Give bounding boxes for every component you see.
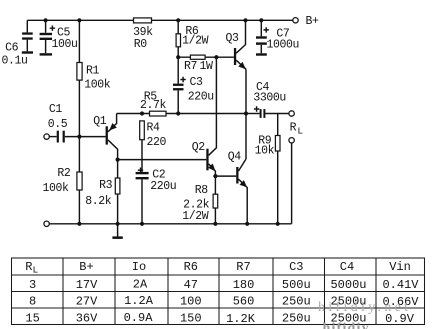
terminal RL bottom bbox=[289, 138, 294, 143]
node output junction bbox=[244, 111, 248, 115]
svg-text:Q1: Q1 bbox=[93, 115, 107, 128]
capacitor C1 bbox=[48, 103, 106, 142]
svg-text:500u: 500u bbox=[282, 278, 311, 292]
node Q4 emitter ground junction bbox=[245, 222, 249, 226]
svg-text:10k: 10k bbox=[255, 145, 275, 158]
svg-text:3: 3 bbox=[29, 278, 36, 292]
table row 3 bbox=[25, 311, 414, 326]
transistor Q2 bbox=[192, 57, 217, 176]
svg-text:hifidiy: hifidiy bbox=[323, 321, 370, 329]
svg-text:R1: R1 bbox=[86, 64, 100, 77]
svg-text:0.9A: 0.9A bbox=[124, 311, 154, 325]
svg-text:C6: C6 bbox=[5, 42, 19, 55]
svg-text:R0: R0 bbox=[134, 38, 148, 51]
table header row bbox=[25, 260, 411, 276]
svg-text:R2: R2 bbox=[57, 167, 71, 180]
node R9 ground junction bbox=[276, 222, 280, 226]
node R3 ground junction bbox=[116, 222, 120, 226]
svg-text:1.2A: 1.2A bbox=[124, 294, 154, 308]
svg-text:220u: 220u bbox=[150, 180, 176, 193]
svg-text:C1: C1 bbox=[49, 103, 63, 116]
svg-text:R3: R3 bbox=[99, 179, 113, 192]
resistor R0 39k bbox=[133, 18, 153, 51]
svg-text:250u: 250u bbox=[282, 295, 311, 309]
svg-text:1/2W: 1/2W bbox=[182, 35, 209, 48]
wire RL bottom to ground rail bbox=[291, 143, 293, 224]
svg-text:R7: R7 bbox=[184, 60, 197, 73]
resistor R5 bbox=[140, 90, 167, 116]
svg-text:C3: C3 bbox=[289, 260, 303, 274]
svg-text:C4: C4 bbox=[340, 260, 354, 274]
transistor Q1 bbox=[93, 114, 117, 160]
resistor R8 bbox=[182, 176, 218, 224]
svg-text:0.1u: 0.1u bbox=[2, 54, 28, 67]
svg-text:L: L bbox=[297, 126, 303, 137]
svg-text:R: R bbox=[290, 122, 297, 135]
node R4/R5 junction bbox=[140, 111, 144, 115]
capacitor C3 bbox=[173, 57, 214, 113]
node Q2 emitter / R8 / Q4 base junction bbox=[213, 174, 217, 178]
svg-text:180: 180 bbox=[233, 278, 255, 292]
svg-text:27V: 27V bbox=[76, 295, 98, 309]
table row 1 bbox=[29, 278, 419, 293]
resistor R9 bbox=[255, 114, 280, 224]
svg-text:220: 220 bbox=[147, 136, 167, 149]
capacitor C6 bbox=[2, 20, 34, 67]
svg-text:8.2k: 8.2k bbox=[85, 195, 112, 208]
svg-text:R6: R6 bbox=[184, 260, 198, 274]
resistor R7 bbox=[176, 55, 218, 73]
svg-text:B+: B+ bbox=[306, 15, 320, 28]
capacitor C7 bbox=[256, 18, 299, 56]
svg-text:R: R bbox=[25, 260, 32, 274]
svg-text:220u: 220u bbox=[188, 90, 214, 103]
transistor Q4 bbox=[228, 151, 248, 224]
node C1/R1/R2 junction bbox=[77, 135, 81, 139]
svg-text:0.41V: 0.41V bbox=[382, 278, 419, 292]
svg-text:3300u: 3300u bbox=[253, 92, 286, 105]
wire bottom ground rail bbox=[49, 223, 291, 225]
capacitor C2 bbox=[136, 168, 177, 224]
svg-text:L: L bbox=[33, 265, 39, 276]
svg-text:hifidiy.net: hifidiy.net bbox=[318, 300, 411, 315]
svg-text:150: 150 bbox=[180, 311, 202, 325]
svg-text:2.7k: 2.7k bbox=[140, 99, 167, 112]
resistor R2 bbox=[43, 137, 83, 224]
resistor R4 bbox=[140, 121, 167, 172]
wire Q1 emitter feedback line bbox=[117, 113, 246, 115]
svg-text:100k: 100k bbox=[84, 78, 111, 91]
resistor R6 bbox=[176, 18, 209, 57]
svg-text:1/2W: 1/2W bbox=[182, 210, 209, 223]
svg-text:2A: 2A bbox=[133, 278, 148, 292]
svg-text:8: 8 bbox=[29, 295, 36, 309]
resistor R3 bbox=[85, 160, 120, 224]
svg-text:100u: 100u bbox=[52, 38, 78, 51]
svg-text:100k: 100k bbox=[43, 182, 70, 195]
node C2 ground junction bbox=[140, 222, 144, 226]
svg-text:Vin: Vin bbox=[389, 260, 411, 274]
svg-text:5000u: 5000u bbox=[330, 278, 366, 292]
table row 2 bbox=[29, 294, 419, 309]
svg-text:36V: 36V bbox=[76, 311, 98, 325]
wire Q2 base bbox=[118, 159, 207, 161]
node R2 ground junction bbox=[77, 222, 81, 226]
svg-text:R8: R8 bbox=[195, 184, 209, 197]
wire output column Q3 emitter to Q4 collector bbox=[245, 69, 247, 159]
terminal ground left bbox=[44, 221, 49, 226]
svg-text:0.5: 0.5 bbox=[48, 118, 68, 131]
wire top B+ rail bbox=[27, 19, 293, 21]
svg-text:1.2K: 1.2K bbox=[226, 312, 256, 326]
table grid bbox=[12, 258, 425, 325]
svg-text:Q2: Q2 bbox=[192, 141, 206, 154]
svg-text:250u: 250u bbox=[282, 311, 311, 325]
svg-text:Q3: Q3 bbox=[226, 32, 240, 45]
svg-text:1W: 1W bbox=[200, 60, 214, 73]
terminal B+ bbox=[293, 18, 298, 23]
svg-text:R4: R4 bbox=[147, 121, 161, 134]
terminal RL top bbox=[289, 111, 294, 116]
wire Q4 base bbox=[215, 175, 236, 177]
svg-text:R7: R7 bbox=[236, 260, 250, 274]
svg-text:15: 15 bbox=[25, 311, 39, 325]
svg-text:560: 560 bbox=[233, 295, 255, 309]
svg-text:C3: C3 bbox=[190, 76, 204, 89]
svg-text:B+: B+ bbox=[79, 260, 93, 274]
svg-text:17V: 17V bbox=[76, 278, 98, 292]
capacitor C4 bbox=[246, 81, 289, 118]
capacitor C5 bbox=[40, 18, 78, 55]
svg-text:100: 100 bbox=[180, 295, 202, 309]
node R8 ground junction bbox=[213, 222, 217, 226]
terminal input bbox=[44, 134, 49, 139]
ground bbox=[112, 224, 122, 239]
svg-text:47: 47 bbox=[184, 278, 198, 292]
svg-text:1000u: 1000u bbox=[267, 38, 300, 51]
svg-text:Io: Io bbox=[132, 260, 146, 274]
node C3 junction bbox=[176, 111, 180, 115]
node Q1 collector / Q2 base junction bbox=[116, 158, 120, 162]
transistor Q3 bbox=[216, 18, 247, 69]
svg-text:Q4: Q4 bbox=[228, 151, 242, 164]
resistor R1 bbox=[77, 18, 111, 136]
